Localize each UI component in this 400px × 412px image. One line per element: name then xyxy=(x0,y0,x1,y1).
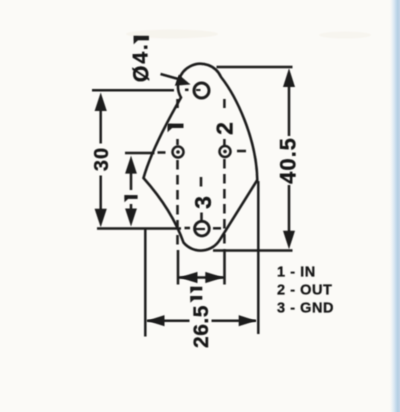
svg-text:2: 2 xyxy=(211,122,237,135)
svg-text:2 - OUT: 2 - OUT xyxy=(277,283,332,299)
svg-text:40.5: 40.5 xyxy=(275,137,300,184)
svg-text:26.5: 26.5 xyxy=(190,305,213,348)
svg-text:30: 30 xyxy=(91,147,113,171)
svg-text:Ø4.: Ø4. xyxy=(128,42,153,82)
svg-text:3: 3 xyxy=(190,196,216,209)
svg-text:1 - IN: 1 - IN xyxy=(277,265,316,281)
svg-text:3 - GND: 3 - GND xyxy=(277,300,334,316)
